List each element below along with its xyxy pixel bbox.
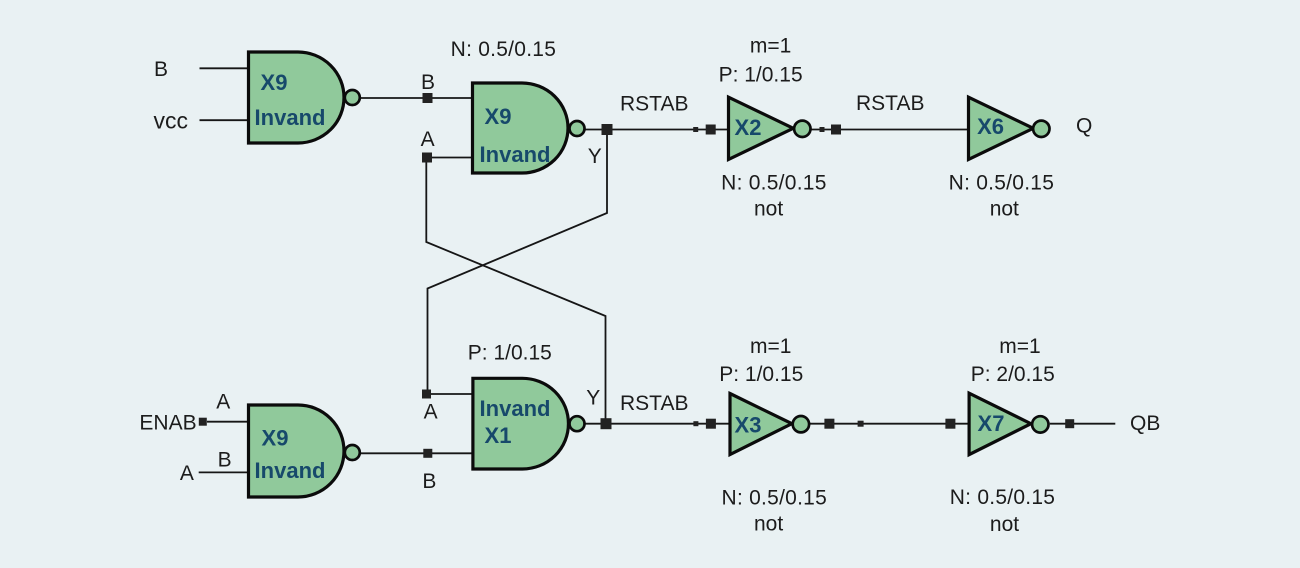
svg-text:P: 2/0.15: P: 2/0.15 <box>971 363 1055 386</box>
node big post-X2 <box>831 125 841 135</box>
nand gate X1 bottom-middle <box>473 378 585 469</box>
bubble X6 <box>1033 121 1049 137</box>
svg-text:Invand: Invand <box>480 396 551 421</box>
svg-text:B: B <box>154 58 168 81</box>
node A G2 <box>422 153 432 163</box>
svg-text:not: not <box>754 198 783 221</box>
wire X1 output rail to X3 <box>585 423 730 425</box>
inverter X2 <box>729 97 811 159</box>
svg-text:RSTAB: RSTAB <box>856 92 924 115</box>
inverter X6 <box>969 97 1050 159</box>
bubble X3 <box>793 416 809 432</box>
svg-text:not: not <box>990 513 1019 536</box>
svg-text:not: not <box>754 513 783 536</box>
node B X1 <box>423 449 432 458</box>
svg-text:N: 0.5/0.15: N: 0.5/0.15 <box>949 172 1054 195</box>
wire X2 output to X6 <box>811 129 969 131</box>
svg-text:B: B <box>422 470 436 493</box>
node small post-X3 <box>858 421 864 427</box>
nand gate X9 top-left <box>249 52 360 143</box>
node ENAB terminal <box>199 418 207 426</box>
svg-text:m=1: m=1 <box>999 335 1040 358</box>
svg-text:X9: X9 <box>262 426 289 451</box>
bubble X1 <box>570 416 585 431</box>
svg-text:X2: X2 <box>735 115 762 140</box>
svg-text:vcc: vcc <box>154 108 189 134</box>
svg-text:m=1: m=1 <box>750 34 791 57</box>
wire B input G1 <box>200 67 249 69</box>
svg-text:Invand: Invand <box>255 458 326 483</box>
svg-text:P: 1/0.15: P: 1/0.15 <box>468 341 552 364</box>
svg-text:X6: X6 <box>977 114 1004 139</box>
svg-text:P: 1/0.15: P: 1/0.15 <box>719 64 803 87</box>
wire vcc input G1 <box>200 119 249 121</box>
node Y G2 <box>602 124 613 135</box>
bubble X2 <box>794 121 810 137</box>
nand gate X9 top-middle <box>473 83 585 173</box>
wire G3 output to X1 B <box>361 452 473 454</box>
svg-text:Invand: Invand <box>480 142 551 167</box>
inverter X7 <box>969 393 1048 454</box>
node big pre-X7 <box>945 419 955 429</box>
wire X7 output to QB <box>1050 423 1116 425</box>
black labels <box>139 34 1160 536</box>
svg-text:Y: Y <box>586 387 600 410</box>
wire G2 A stub <box>427 157 473 159</box>
svg-text:A: A <box>216 391 230 414</box>
svg-text:m=1: m=1 <box>750 335 791 358</box>
navy gate labels <box>255 70 1005 483</box>
bubble X7 <box>1032 416 1048 432</box>
svg-text:A: A <box>421 128 435 151</box>
node B G2 <box>423 93 433 103</box>
svg-text:X7: X7 <box>978 411 1005 436</box>
svg-text:RSTAB: RSTAB <box>620 392 688 415</box>
wire X1 A stub <box>427 393 473 395</box>
wire cross A(top) to Y(bottom) <box>426 158 605 424</box>
node big pre-X3 <box>706 419 716 429</box>
wire G1 output to G2 B <box>361 97 473 99</box>
wire ENAB input G3 <box>207 421 249 423</box>
svg-text:A: A <box>424 401 438 424</box>
node small post-X2 <box>820 127 825 132</box>
node big post-X7 <box>1065 419 1074 428</box>
wire G2 output rail to X2 <box>586 129 729 131</box>
node small pre-X2 <box>693 127 698 132</box>
svg-text:X9: X9 <box>261 70 288 95</box>
svg-text:P: 1/0.15: P: 1/0.15 <box>719 363 803 386</box>
wire A input G3 <box>199 471 249 473</box>
svg-text:X3: X3 <box>735 413 762 438</box>
svg-text:ENAB: ENAB <box>139 412 196 435</box>
svg-text:RSTAB: RSTAB <box>620 93 688 116</box>
node small pre-X3 <box>693 421 698 426</box>
svg-text:N: 0.5/0.15: N: 0.5/0.15 <box>721 172 826 195</box>
svg-text:X1: X1 <box>485 423 512 448</box>
bubble G2 <box>570 121 585 136</box>
svg-text:A: A <box>180 462 194 485</box>
node big pre-X2 <box>706 125 716 135</box>
svg-text:Invand: Invand <box>255 105 326 130</box>
node big post-X3 <box>824 419 834 429</box>
node A X1 <box>422 390 431 399</box>
svg-text:N: 0.5/0.15: N: 0.5/0.15 <box>722 487 827 510</box>
bubble G3 <box>345 445 360 460</box>
nand gate X9 bottom-left <box>249 405 360 497</box>
svg-text:N: 0.5/0.15: N: 0.5/0.15 <box>451 38 556 61</box>
inverter X3 <box>730 394 809 455</box>
svg-text:QB: QB <box>1130 412 1160 435</box>
bubble G1 <box>345 90 360 105</box>
junction squares <box>199 93 1074 458</box>
svg-text:X9: X9 <box>485 104 512 129</box>
wire cross Y(top) to A(bottom) <box>428 130 608 395</box>
svg-text:B: B <box>421 71 435 94</box>
svg-text:not: not <box>990 198 1019 221</box>
node Y X1 <box>601 418 612 429</box>
svg-text:Q: Q <box>1076 115 1092 138</box>
svg-text:B: B <box>218 449 232 472</box>
svg-text:Y: Y <box>588 145 602 168</box>
wire X3 output to X7 <box>810 423 969 425</box>
svg-text:N: 0.5/0.15: N: 0.5/0.15 <box>950 486 1055 509</box>
